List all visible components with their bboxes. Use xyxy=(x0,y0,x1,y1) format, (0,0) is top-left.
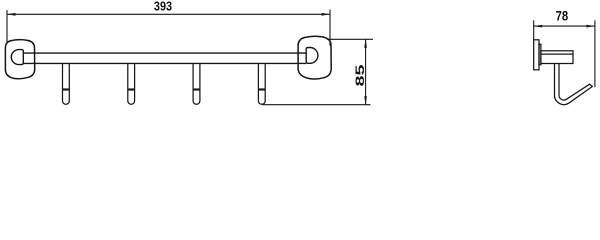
hook 1 xyxy=(63,64,70,105)
hook 4 collar xyxy=(258,88,265,90)
dim 85 arrow top xyxy=(364,39,367,48)
dim 393 arrow left xyxy=(7,13,16,16)
svg-text:85: 85 xyxy=(353,64,367,87)
dim 393 dimension line xyxy=(7,13,330,15)
right bracket plate xyxy=(298,36,331,79)
hook 3 xyxy=(193,64,200,105)
hook 1 collar xyxy=(63,88,70,90)
side hook xyxy=(555,64,593,105)
dim 78 extension line right xyxy=(594,20,596,87)
hook 4 xyxy=(258,64,265,105)
dim 78 arrow left xyxy=(534,25,543,28)
side arm / bar body xyxy=(541,51,573,64)
dim 78 arrow right xyxy=(586,25,595,28)
hook 2 collar xyxy=(128,88,135,90)
dim 393 arrow right xyxy=(322,13,331,16)
left bracket boss xyxy=(11,50,23,65)
dim 85 bottom extension line xyxy=(263,104,371,106)
dim 85 top extension line xyxy=(327,38,373,40)
right bracket boss xyxy=(306,48,318,64)
svg-text:78: 78 xyxy=(556,8,569,23)
dim 85 arrow bottom xyxy=(364,96,367,105)
dim 393 extension line right xyxy=(329,10,331,46)
svg-text:393: 393 xyxy=(154,0,172,13)
towel bar top edge xyxy=(23,52,306,54)
dim 85 dimension line xyxy=(365,39,367,105)
left bracket plate xyxy=(5,40,34,79)
side collar xyxy=(539,44,541,65)
towel bar bottom edge xyxy=(23,62,306,64)
dim 78 dimension line xyxy=(534,25,595,27)
side wall plate xyxy=(534,40,539,70)
dim 78 extension line left xyxy=(533,20,535,40)
side arm inner line xyxy=(541,53,573,55)
hook 2 xyxy=(128,64,135,105)
dim 393 extension line left xyxy=(6,10,8,44)
hook 3 collar xyxy=(193,88,200,90)
